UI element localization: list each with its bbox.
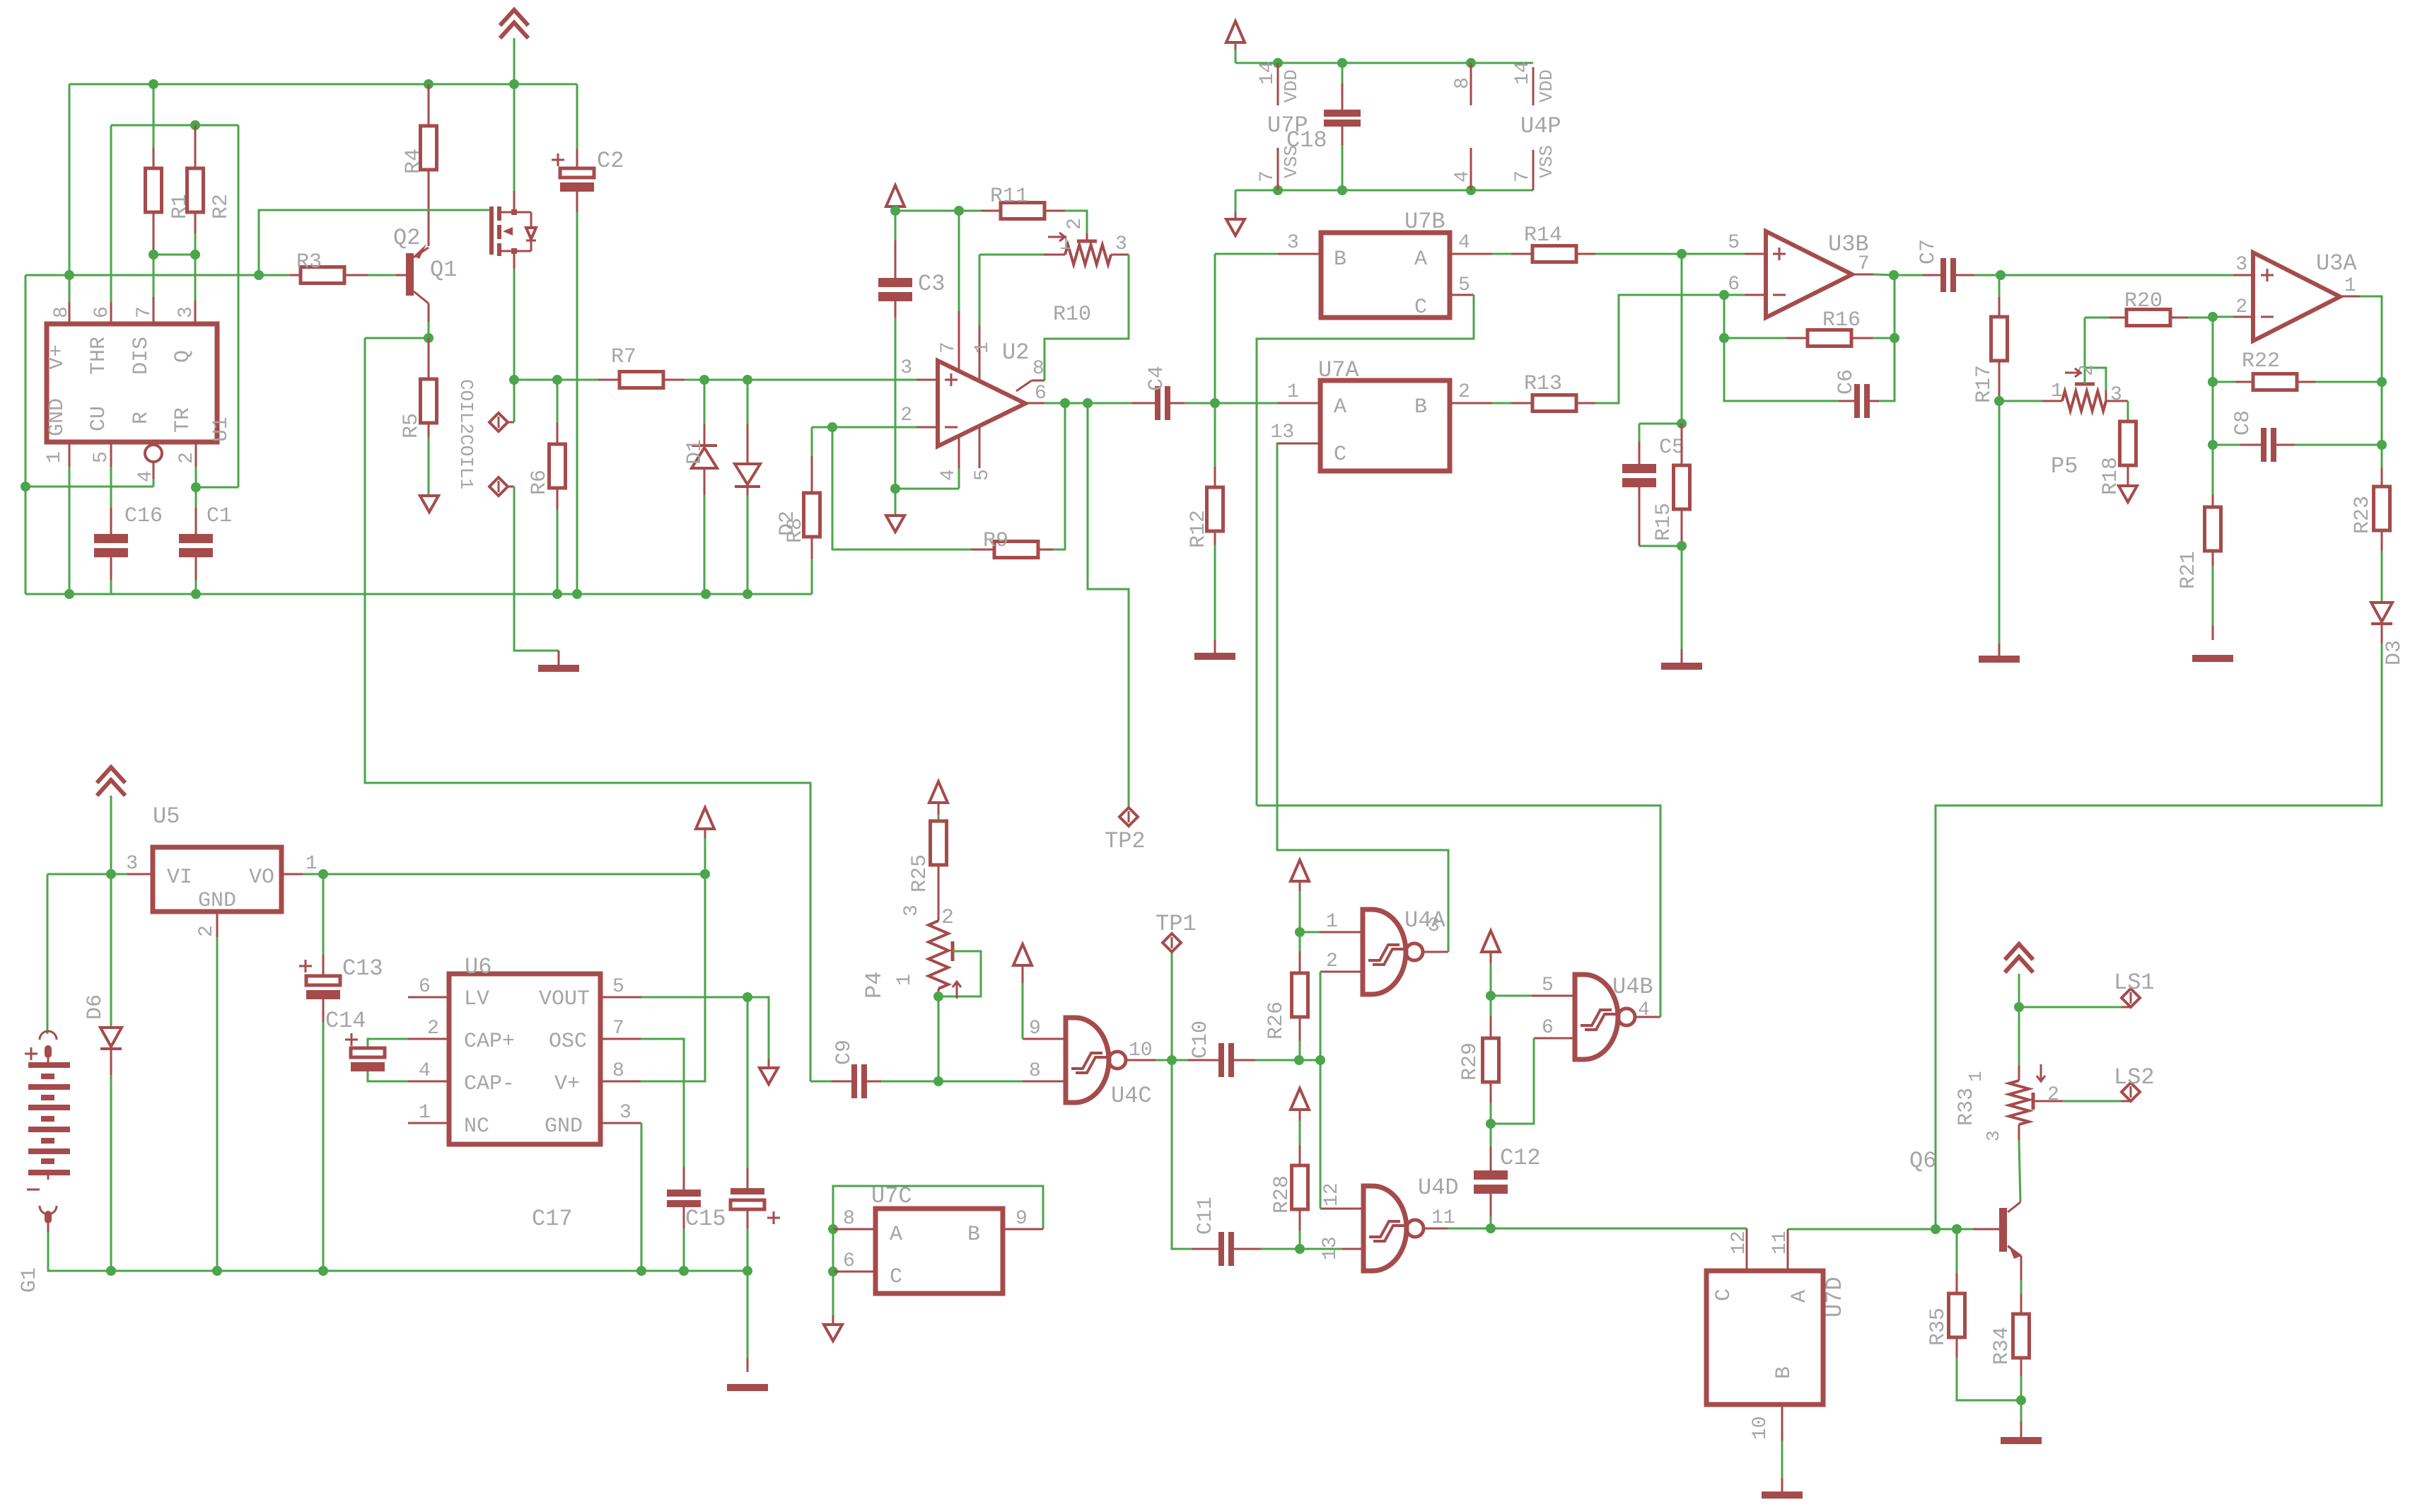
U7C pin 6 [828,1229,875,1277]
capacitor C7 [1916,239,2006,292]
svg-text:LS2: LS2 [2114,1064,2155,1091]
svg-text:Q6: Q6 [1909,1148,1936,1174]
U1 pin 8 [51,302,73,324]
svg-text:14: 14 [1512,61,1534,85]
U4C pin 9 [1023,965,1066,1040]
svg-text:C15: C15 [685,1206,726,1232]
svg-text:8: 8 [1032,358,1044,380]
gate U4B [1575,974,1653,1059]
svg-text:Q2: Q2 [393,225,420,251]
capacitor C1 [179,504,232,594]
U7C pin 8 [828,1208,875,1234]
ground T below R12 [1194,653,1235,660]
svg-text:R16: R16 [1822,308,1861,332]
svg-text:8: 8 [843,1208,855,1230]
svg-text:R4: R4 [402,149,426,174]
svg-text:NC: NC [464,1115,489,1139]
svg-text:C9: C9 [832,1040,856,1065]
U3B pin6 [1719,274,1766,300]
diode D2 [735,380,800,594]
svg-text:6: 6 [419,976,431,998]
resistor R18 [2099,401,2136,495]
wire C7 to U3A pin3 [2001,274,2253,277]
U6 pin 3 GND [600,1102,641,1271]
power VCC2 arrow above R33 [2005,944,2033,1007]
U1 pin 1 [44,442,69,594]
svg-text:C6: C6 [1834,369,1858,395]
U2 pin4 [938,436,960,489]
capacitor C15 electrolytic [685,997,780,1271]
svg-text:12: 12 [1728,1231,1750,1255]
wire TR net [191,482,238,508]
resistor R21 [2177,445,2221,640]
svg-text:R9: R9 [983,529,1008,553]
resistor R22 [2208,317,2382,390]
svg-text:5: 5 [1542,975,1554,996]
power VCC arrow above C3 [886,185,904,211]
svg-text:R25: R25 [908,854,932,892]
svg-text:U4P: U4P [1520,113,1561,139]
svg-text:7: 7 [1512,170,1534,182]
resistor R20 [2085,289,2213,326]
U7P pin 7 stub [1257,145,1302,190]
svg-text:6: 6 [1035,383,1047,405]
svg-text:5: 5 [91,451,112,463]
svg-text:R20: R20 [2124,289,2163,313]
resistor R35 [1926,1229,2021,1400]
svg-text:3: 3 [175,306,197,318]
svg-text:C: C [1712,1289,1736,1301]
testpoint TP2 [1105,808,1146,854]
svg-text:D3: D3 [2382,640,2407,665]
svg-text:5: 5 [1458,274,1470,296]
svg-text:C11: C11 [1194,1197,1218,1235]
svg-text:R3: R3 [296,250,322,274]
U7A pin 2 to R13 [1450,381,1511,403]
U7B pin 5 [1257,274,1474,806]
svg-text:B: B [1414,395,1427,419]
wire regulated to U6 V+ [600,874,705,1081]
ground arrow below VSS rail [1226,190,1245,235]
svg-text:3: 3 [2235,254,2247,276]
svg-text:2: 2 [176,452,198,464]
label U7P [1267,112,1308,139]
wire pin8 net vertical [21,275,259,594]
ground T below U7D [1762,1491,1803,1499]
svg-text:2: 2 [1326,950,1338,972]
diode D3 [2371,551,2407,665]
U2 pin2 wire [812,405,938,432]
svg-text:9: 9 [1029,1018,1041,1040]
U5 pin 3 [126,853,153,875]
svg-text:R23: R23 [2351,496,2375,534]
resistor R25 [908,821,947,905]
resistor R14 [1511,223,1682,262]
wire Q1 collector node [365,303,433,343]
resistor R29 [1458,996,1499,1124]
resistor R17 [1972,275,2008,406]
U1 pin 6 [91,302,113,324]
capacitor C9 [810,1040,1023,1098]
svg-text:B: B [1334,248,1346,272]
U4C pin 8 [1023,1060,1066,1082]
svg-text:Q1: Q1 [430,257,457,283]
U2 pin7 power [938,211,960,371]
resistor R8 [784,427,820,594]
svg-text:C2: C2 [597,148,624,174]
U2 pin3 label [900,357,938,380]
U3B pin7 out [1852,253,1894,275]
ground T below R15 [1661,663,1702,670]
trimpot P4 wiper [938,906,981,999]
capacitor C12 [1474,1124,1541,1233]
svg-text:4: 4 [1452,170,1474,182]
svg-text:5: 5 [1728,232,1740,254]
wire V+ top rail [64,79,577,302]
wire P4 pin1 node [933,991,943,1086]
svg-text:GND: GND [198,889,236,913]
gate U4C [1066,1018,1152,1109]
U7A pin 1 [1215,381,1320,403]
transistor Q6 NPN [1909,1124,2021,1259]
svg-text:C7: C7 [1916,239,1940,264]
U7A pin 13 [1270,421,1448,951]
resistor R2 [187,125,234,233]
svg-text:U7D: U7D [1822,1277,1848,1318]
diode D6 [83,874,122,1271]
U6 pin 5 VOUT [600,976,769,1068]
U1 pin names [45,337,195,436]
U4B pin 4 out [1257,806,1660,1021]
U7B pin 3 [1215,232,1321,403]
svg-text:D6: D6 [83,994,107,1020]
svg-text:R33: R33 [1955,1088,1979,1126]
resistor R5 [400,338,437,496]
wire U2 pin4 gnd [890,484,959,516]
svg-text:CAP+: CAP+ [464,1030,515,1054]
IC U7A box [1318,357,1450,471]
wire D3 to Q6 base [1936,644,2382,1228]
svg-text:U7C: U7C [871,1183,912,1209]
svg-text:R29: R29 [1458,1042,1482,1081]
U6 pin 6 stub [408,976,449,998]
svg-text:1: 1 [44,451,66,463]
svg-text:VOUT: VOUT [539,987,590,1011]
U6 pin 4 [408,1060,449,1082]
svg-text:LV: LV [464,987,489,1011]
svg-text:7: 7 [1257,170,1279,182]
svg-text:13: 13 [1320,1236,1342,1260]
IC U7D box [1706,1271,1848,1405]
U1 pin 4 with bubble [135,445,162,487]
power VCC arrow above U4A [1291,860,1309,932]
svg-text:7: 7 [612,1018,624,1040]
ground arrow below R18 [2119,486,2137,502]
trimpot R33 wiper [2033,1064,2131,1110]
svg-text:Q: Q [171,350,195,363]
U4B pin 5 [1486,975,1575,1001]
capacitor C13 electrolytic [299,874,383,1271]
svg-text:8: 8 [612,1060,624,1082]
capacitor C14 electrolytic [325,1008,408,1081]
resistor R9 feedback [832,403,1065,558]
svg-text:DIS: DIS [129,337,153,375]
svg-text:C12: C12 [1500,1145,1541,1171]
U3A pin3 label [2235,254,2247,276]
svg-text:8: 8 [1452,77,1474,89]
U1 pin 7 [134,297,156,324]
svg-text:TR: TR [171,407,195,433]
label COIL2COIL1 [455,379,477,489]
svg-text:6: 6 [1542,1017,1554,1039]
svg-text:R21: R21 [2177,551,2201,589]
svg-text:C: C [890,1265,902,1289]
wire LS1 [2014,1002,2131,1012]
ground T below R17 [1979,656,2020,663]
svg-text:G1: G1 [18,1267,42,1293]
svg-text:C10: C10 [1189,1020,1213,1059]
svg-text:C4: C4 [1145,366,1169,391]
U7D pin 10 [1750,1405,1782,1494]
svg-text:2: 2 [2235,296,2247,318]
svg-text:C: C [1334,443,1346,467]
svg-text:R5: R5 [400,413,424,438]
svg-text:3: 3 [901,905,923,917]
svg-text:7: 7 [938,342,960,354]
svg-text:U6: U6 [465,954,491,980]
wire U5 input rail y=1236 [47,869,127,1034]
U6 pin 2 + C14 [368,1018,449,1048]
capacitor C17 [532,1190,701,1271]
capacitor C2 electrolytic [552,84,624,594]
svg-text:3: 3 [1428,915,1440,937]
U7D pin 12 [1728,1228,1750,1271]
U6 pin 7 OSC to C17 [600,1018,684,1190]
svg-text:11: 11 [1431,1207,1455,1229]
svg-text:CU: CU [87,406,111,431]
Q6 base wire [1957,1228,1999,1231]
U7B pin 4 to R14 [1450,232,1511,254]
svg-text:1: 1 [419,1102,431,1124]
label U4P [1520,113,1561,139]
svg-text:2: 2 [1458,381,1470,403]
svg-text:4: 4 [1638,999,1650,1021]
svg-text:U4B: U4B [1612,974,1653,1000]
svg-text:U7P: U7P [1267,112,1308,139]
svg-text:U2: U2 [1002,339,1029,366]
svg-text:C: C [1414,296,1427,320]
U4P pin 14 stub [1512,61,1557,105]
ground arrow below C3/U2 [886,516,904,532]
wire R7 to U2+ y=537 [685,375,916,385]
svg-text:R34: R34 [1990,1327,2014,1365]
trimpot P4 [861,905,948,999]
svg-text:C1: C1 [206,504,232,528]
svg-text:12: 12 [1321,1182,1343,1206]
svg-text:D1: D1 [683,439,707,465]
svg-text:A: A [890,1223,902,1247]
svg-text:R14: R14 [1524,223,1562,248]
gate U4A [1363,907,1445,994]
power pin8 stub [1452,63,1474,105]
svg-text:C8: C8 [2231,410,2255,436]
svg-text:TP1: TP1 [1156,911,1197,937]
U1 pin 5 [91,442,112,508]
ground arrow below U7C [824,1272,842,1341]
svg-text:U7B: U7B [1404,209,1445,235]
op-amp U3A [2253,250,2357,341]
coil pin COIL2 [489,477,559,666]
capacitor C5 [1622,424,1684,546]
power pin4 stub [1452,148,1474,190]
op-amp U2 [938,339,1029,446]
power VCC2 arrow above D6 [97,767,125,874]
mosfet Q2 [489,207,536,256]
U2 pin5 stub [972,426,994,481]
svg-text:COIL2COIL1: COIL2COIL1 [455,379,477,489]
power VCC arrow above R25 [929,781,948,821]
IC U5 regulator box [153,803,281,913]
wire +V regulated rail [318,869,710,879]
capacitor C10 [1172,1020,1325,1077]
wire TP2 net [1088,403,1129,812]
resistor R28 [1270,1145,1308,1249]
resistor R13 [1511,295,1724,412]
resistor R4 [402,84,437,246]
svg-text:C14: C14 [325,1008,366,1034]
svg-text:C13: C13 [342,955,383,982]
capacitor C8 [2208,382,2382,462]
capacitor C18 [1286,63,1361,190]
svg-text:R2: R2 [209,194,233,219]
speaker pin LS2 [2114,1064,2155,1101]
wire source-coil net y=537 [509,375,598,385]
wire pin4 jog [25,486,153,488]
svg-text:R15: R15 [1652,503,1676,541]
svg-text:R6: R6 [528,470,552,495]
svg-text:A: A [1334,395,1346,419]
gate U4D [1363,1175,1459,1271]
power VCC2 arrow top-left [500,10,528,84]
resistor R6 [528,380,566,594]
capacitor C11 [1172,1060,1305,1266]
svg-text:V+: V+ [45,344,69,370]
svg-text:4: 4 [1458,232,1470,254]
resistor R15 [1639,424,1690,551]
IC U6 charge pump box [449,954,600,1144]
U4A pin 2 [1320,950,1363,1060]
speaker pin LS1 [2114,970,2155,1007]
U7P pin 14 stub [1257,61,1302,105]
svg-text:U4D: U4D [1418,1175,1459,1201]
capacitor C3 [878,211,945,489]
power VCC arrow above rail right [696,808,714,874]
svg-text:GND: GND [45,398,69,436]
wire R17 to gnd [1998,401,2001,658]
resistor R12 [1187,398,1223,654]
svg-text:C17: C17 [532,1206,573,1232]
trimpot R10 [1065,245,1111,264]
svg-text:1: 1 [894,974,916,986]
svg-text:R8: R8 [784,518,808,543]
op-amp U3B [1766,231,1869,318]
U4D pin 13 [1300,1236,1363,1260]
svg-text:8: 8 [51,306,73,318]
wire VSS rail y=269 [1235,185,1533,195]
power VCC arrow above R28 [1291,1088,1309,1145]
svg-text:THR: THR [87,337,111,375]
U4C pin 10 out [1126,1040,1177,1065]
svg-text:B: B [1772,1366,1796,1379]
ground T below R21 [2192,655,2233,662]
svg-text:1: 1 [1326,911,1338,933]
wire mid GND rail y=840 [25,589,812,599]
svg-text:R7: R7 [611,345,636,369]
svg-text:B: B [967,1223,980,1247]
U1 pin 2 [176,442,198,487]
svg-text:6: 6 [91,306,113,318]
power VCC arrow above R29 [1482,931,1500,996]
svg-text:VSS: VSS [1536,145,1557,178]
testpoint TP1 [1156,911,1197,1060]
svg-text:R17: R17 [1972,365,1996,403]
svg-text:U1: U1 [209,417,233,442]
resistor R3 [259,250,406,284]
transistor Q1 PNP [393,225,457,303]
svg-text:P4: P4 [861,972,888,999]
power VCC arrow above U4C pin9 [1013,944,1032,965]
trimpot P5 [1999,391,2106,479]
U3B pin5 [1677,232,1766,259]
svg-text:10: 10 [1129,1040,1153,1062]
wire bottom GND rail [48,1266,752,1276]
capacitor C16 [94,504,163,594]
svg-text:CAP-: CAP- [464,1072,515,1096]
svg-text:U7A: U7A [1318,357,1359,383]
resistor R1 [146,84,193,255]
svg-text:3: 3 [2110,384,2122,406]
svg-text:C3: C3 [918,271,945,297]
svg-text:14: 14 [1257,61,1279,85]
trimpot R10 wiper [1048,218,1127,327]
wire mosfet drain [513,84,516,209]
svg-text:VSS: VSS [1281,145,1302,178]
svg-text:GND: GND [545,1115,583,1139]
diode D1 [683,380,717,594]
svg-text:R28: R28 [1270,1175,1294,1214]
wire VDD rail y=89 [1235,58,1533,68]
svg-text:3: 3 [1983,1130,2004,1141]
svg-text:1: 1 [305,853,318,875]
U2 pin8 label [1032,358,1044,380]
svg-text:1: 1 [1287,381,1299,403]
U1 pin 3 [175,301,197,324]
IC U7C box [871,1183,1003,1293]
wire gate net [254,210,491,280]
svg-text:3: 3 [1115,233,1127,255]
svg-text:3: 3 [126,853,138,875]
ground T below C15 [727,1271,768,1388]
U6 pin 8 label [612,1060,624,1082]
svg-text:2: 2 [1064,218,1086,230]
svg-text:2: 2 [900,405,912,426]
U2 pin1 power [972,255,994,380]
svg-text:4: 4 [419,1060,431,1082]
svg-text:R13: R13 [1524,372,1562,396]
svg-text:C16: C16 [124,504,163,528]
battery G1 [18,1031,111,1293]
svg-text:U4C: U4C [1111,1083,1152,1109]
